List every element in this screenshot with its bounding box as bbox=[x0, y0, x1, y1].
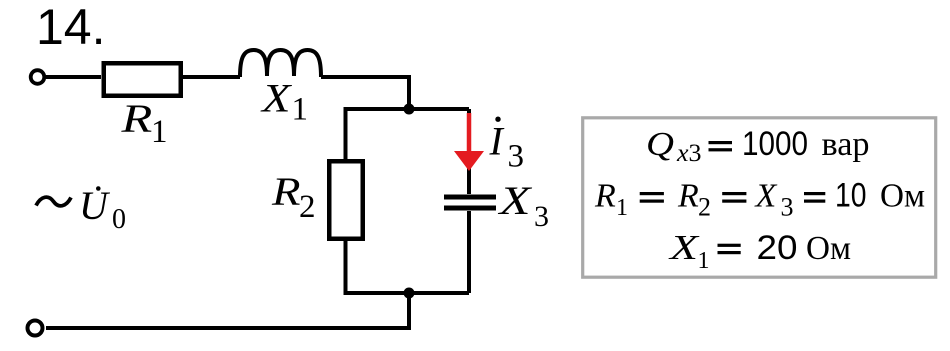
capacitor X3 bbox=[444, 195, 496, 200]
svg-text:Ом: Ом bbox=[880, 177, 925, 214]
node junction top bbox=[404, 104, 415, 115]
equals 2-3 bbox=[804, 192, 825, 195]
equals 2-2 bbox=[722, 192, 746, 195]
svg-text:1: 1 bbox=[292, 92, 309, 128]
wire parallel top rail bbox=[346, 109, 470, 159]
resistor R2 bbox=[329, 161, 363, 239]
equals 1-1 bbox=[709, 141, 733, 144]
node junction bottom bbox=[404, 288, 415, 299]
equals 2-1 bbox=[640, 192, 664, 195]
svg-text:X: X bbox=[497, 178, 533, 223]
svg-text:1: 1 bbox=[151, 114, 168, 150]
dot over U0 bbox=[96, 186, 101, 191]
svg-text:Q: Q bbox=[646, 126, 674, 163]
svg-text:X: X bbox=[667, 228, 700, 267]
dot over I3 bbox=[495, 117, 500, 122]
svg-text:R: R bbox=[594, 177, 616, 214]
svg-text:I: I bbox=[489, 118, 505, 163]
svg-text:1: 1 bbox=[698, 248, 710, 274]
svg-text:3: 3 bbox=[534, 200, 549, 233]
svg-text:10: 10 bbox=[835, 176, 867, 214]
svg-text:x3: x3 bbox=[676, 140, 702, 167]
svg-text:R: R bbox=[271, 169, 301, 214]
svg-text:14.: 14. bbox=[36, 0, 106, 55]
svg-text:1000: 1000 bbox=[742, 125, 808, 163]
svg-text:R: R bbox=[120, 96, 152, 141]
svg-text:2: 2 bbox=[698, 192, 711, 221]
svg-text:0: 0 bbox=[112, 204, 126, 235]
terminal bottom-left bbox=[28, 321, 43, 336]
svg-text:3: 3 bbox=[508, 139, 525, 175]
svg-text:X: X bbox=[754, 177, 778, 214]
svg-text:3: 3 bbox=[781, 192, 794, 221]
svg-text:20: 20 bbox=[757, 229, 798, 267]
resistor R1 bbox=[104, 63, 181, 96]
wire X3 bottom lead bbox=[467, 211, 471, 293]
inductor X1 bbox=[240, 50, 321, 77]
terminal top-left bbox=[31, 70, 45, 84]
svg-text:R: R bbox=[677, 177, 699, 214]
wire X1 to top node bbox=[321, 77, 409, 106]
wire R1 to X1 bbox=[183, 75, 240, 79]
data box bbox=[583, 118, 936, 277]
AC tilde symbol bbox=[36, 197, 71, 206]
wire input to R1 bbox=[46, 75, 101, 79]
wire R2 bottom lead bbox=[346, 241, 470, 293]
current arrow I3 bbox=[467, 113, 472, 153]
wire bottom return bbox=[46, 291, 409, 328]
svg-text:U: U bbox=[79, 183, 111, 228]
wire X3 branch top lead bbox=[467, 109, 471, 194]
svg-text:Ом: Ом bbox=[806, 230, 851, 267]
svg-text:X: X bbox=[260, 76, 293, 121]
equals 3-1 bbox=[718, 244, 741, 247]
svg-text:вар: вар bbox=[822, 126, 870, 163]
svg-text:1: 1 bbox=[616, 195, 628, 221]
svg-text:2: 2 bbox=[299, 189, 316, 225]
